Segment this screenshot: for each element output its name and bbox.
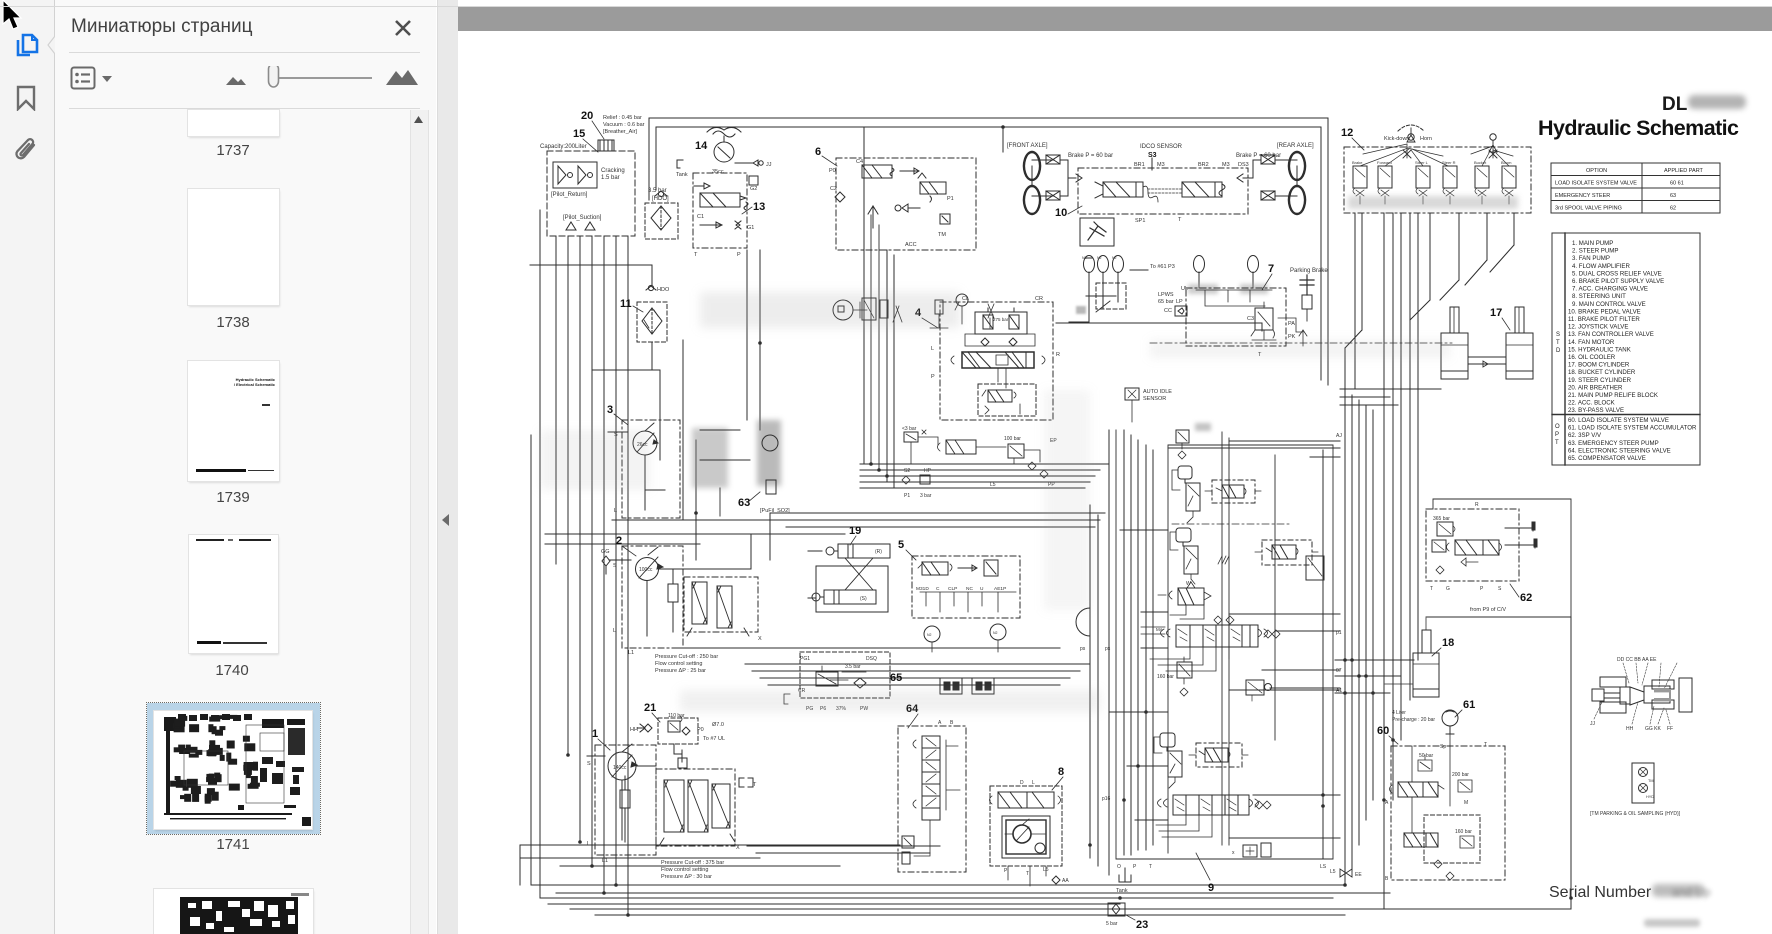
model logo DL420 (blurred) bbox=[1662, 94, 1746, 115]
load isolate system valve 60 bbox=[1377, 725, 1505, 882]
svg-text:21. MAIN PUMP RELIFE BLOCK: 21. MAIN PUMP RELIFE BLOCK bbox=[1568, 392, 1658, 399]
svg-text:W: W bbox=[1186, 581, 1191, 587]
svg-text:[Breather_Air]: [Breather_Air] bbox=[603, 129, 637, 135]
svg-text:N2: N2 bbox=[993, 631, 998, 635]
svg-text:ps: ps bbox=[1080, 646, 1086, 652]
svg-text:G1: G1 bbox=[747, 225, 754, 231]
svg-text:Vacuum : 0.6 bar: Vacuum : 0.6 bar bbox=[603, 122, 645, 128]
thumbnail page 1742 (partial at bottom) bbox=[154, 889, 313, 934]
svg-text:R: R bbox=[1056, 352, 1060, 358]
svg-text:Serial Number: Serial Number bbox=[1549, 884, 1652, 901]
thumbnail page 1738 bbox=[188, 189, 279, 305]
svg-text:L: L bbox=[587, 841, 590, 847]
notch on strip border pointing to active icon bbox=[46, 36, 56, 58]
svg-text:P1: P1 bbox=[947, 196, 954, 202]
wire top loop bbox=[649, 118, 1328, 385]
svg-text:(R): (R) bbox=[875, 549, 882, 555]
kick-down joystick valve 12 bbox=[1341, 125, 1531, 213]
svg-text:LPWS: LPWS bbox=[1158, 292, 1174, 298]
MCV bucket main spool bbox=[1102, 795, 1271, 837]
svg-text:S: S bbox=[1556, 332, 1560, 338]
svg-text:Steer R: Steer R bbox=[1442, 160, 1456, 165]
svg-text:Brake: Brake bbox=[1352, 160, 1363, 165]
svg-text:T: T bbox=[753, 782, 757, 788]
svg-text:G: G bbox=[1446, 586, 1450, 592]
svg-text:60. LOAD ISOLATE SYSTEM VALVE: 60. LOAD ISOLATE SYSTEM VALVE bbox=[1568, 417, 1669, 424]
svg-text:07: 07 bbox=[1336, 668, 1342, 674]
wire mid verticals to MCV bbox=[1109, 430, 1153, 875]
svg-text:[TM PARKING & OIL SAMPLING (HY: [TM PARKING & OIL SAMPLING (HYD)] bbox=[1590, 811, 1681, 817]
MCV 160bar relief bbox=[1157, 556, 1324, 701]
thumbnail page 1741 selected bbox=[147, 703, 320, 834]
emergency steer pump 63 (blurred region) bbox=[692, 420, 790, 516]
steer cylinder 19 crossover bbox=[808, 525, 890, 612]
svg-text:CR: CR bbox=[1035, 296, 1043, 302]
svg-text:C1: C1 bbox=[697, 214, 704, 220]
svg-text:19: 19 bbox=[849, 525, 861, 537]
hydraulic tank 15 bbox=[540, 128, 635, 236]
legend box bbox=[1552, 233, 1700, 465]
svg-text:C2: C2 bbox=[830, 186, 837, 192]
svg-text:EE: EE bbox=[1355, 872, 1362, 878]
thumbnail page 1739 bbox=[188, 361, 279, 481]
svg-text:22. ACC. BLOCK: 22. ACC. BLOCK bbox=[1568, 400, 1615, 407]
svg-text:D: D bbox=[1020, 780, 1024, 786]
svg-text:PA: PA bbox=[1288, 321, 1295, 327]
svg-text:[Pilot_Suction]: [Pilot_Suction] bbox=[563, 215, 602, 221]
small mountain (zoom-out thumbnails) bbox=[225, 74, 247, 86]
svg-text:TM: TM bbox=[938, 232, 946, 238]
panel close X bbox=[390, 15, 416, 41]
svg-text:M: M bbox=[1464, 800, 1468, 806]
svg-text:17. BOOM CYLINDER: 17. BOOM CYLINDER bbox=[1568, 362, 1630, 369]
wire left trunk bbox=[531, 210, 540, 898]
front axle bbox=[1007, 143, 1082, 214]
svg-text:L: L bbox=[614, 508, 617, 514]
svg-text:63. EMERGENCY STEER PUMP: 63. EMERGENCY STEER PUMP bbox=[1568, 440, 1659, 447]
svg-text:Sp: Sp bbox=[1440, 744, 1446, 750]
svg-text:A1: A1 bbox=[1336, 688, 1342, 694]
svg-text:GG: GG bbox=[601, 549, 610, 555]
MCV comp spool right bbox=[1255, 540, 1318, 565]
steer pump 2 bbox=[601, 534, 751, 656]
compensator valve 65 bbox=[784, 652, 902, 712]
main pump relief block 21 bbox=[630, 702, 725, 768]
MCV W valve bbox=[1158, 581, 1211, 619]
svg-text:L1: L1 bbox=[602, 858, 608, 864]
svg-text:15. HYDRAULIC TANK: 15. HYDRAULIC TANK bbox=[1568, 346, 1631, 353]
svg-text:P: P bbox=[1004, 868, 1008, 874]
svg-text:4 Liter: 4 Liter bbox=[1392, 710, 1406, 716]
svg-text:L: L bbox=[1032, 780, 1035, 786]
svg-text:AE1P: AE1P bbox=[994, 586, 1006, 592]
svg-text:2. STEER PUMP: 2. STEER PUMP bbox=[1572, 248, 1618, 255]
MCV drain check bbox=[1232, 433, 1342, 875]
attachments paperclip icon bbox=[12, 136, 40, 166]
tank symbol bottom bbox=[1116, 864, 1327, 894]
MCV bucket pilot reducing valve bbox=[1170, 528, 1198, 588]
svg-text:[FRONT AXLE]: [FRONT AXLE] bbox=[1007, 143, 1048, 149]
left tool strip bbox=[0, 0, 55, 934]
svg-text:14: 14 bbox=[695, 140, 708, 152]
svg-text:Kick-down: Kick-down bbox=[1384, 136, 1409, 142]
svg-text:100 bar: 100 bar bbox=[1004, 436, 1021, 442]
MCV junction diamonds bbox=[1141, 616, 1234, 634]
junction dots grid bbox=[566, 125, 1573, 917]
svg-text:To #7 UL: To #7 UL bbox=[703, 736, 725, 742]
svg-text:AUTO IDLE: AUTO IDLE bbox=[1143, 389, 1172, 395]
svg-text:Tank: Tank bbox=[1116, 888, 1128, 894]
svg-text:DL: DL bbox=[1662, 94, 1688, 115]
bucket cylinder 18 bbox=[1385, 618, 1454, 697]
svg-text:275 bar: 275 bar bbox=[993, 317, 1009, 322]
svg-text:TM: TM bbox=[1648, 779, 1653, 783]
svg-text:60 61: 60 61 bbox=[1670, 181, 1684, 187]
svg-text:N2: N2 bbox=[1112, 256, 1117, 260]
svg-text:X: X bbox=[736, 845, 740, 851]
svg-text:10. BRAKE PEDAL VALVE: 10. BRAKE PEDAL VALVE bbox=[1568, 308, 1641, 315]
svg-text:Flow control setting: Flow control setting bbox=[655, 661, 702, 667]
svg-text:50 bar: 50 bar bbox=[1419, 753, 1434, 759]
svg-text:65. COMPENSATOR VALVE: 65. COMPENSATOR VALVE bbox=[1568, 455, 1646, 462]
svg-text:ACC: ACC bbox=[905, 242, 917, 248]
MCV bucket comp spool bbox=[1189, 743, 1248, 767]
svg-text:[PuFil_SO2]: [PuFil_SO2] bbox=[760, 508, 790, 514]
svg-text:365 bar: 365 bar bbox=[1433, 516, 1450, 522]
svg-text:PG1: PG1 bbox=[800, 656, 810, 662]
footer doc number blurred bbox=[1644, 919, 1700, 927]
svg-text:HYD: HYD bbox=[1646, 795, 1654, 799]
svg-text:9. MAIN CONTROL VALVE: 9. MAIN CONTROL VALVE bbox=[1572, 301, 1646, 308]
options list icon bbox=[70, 65, 96, 91]
svg-text:15: 15 bbox=[573, 128, 585, 140]
svg-text:14. FAN MOTOR: 14. FAN MOTOR bbox=[1568, 339, 1615, 346]
svg-text:62: 62 bbox=[1520, 592, 1532, 604]
svg-text:3.5 bar: 3.5 bar bbox=[648, 188, 667, 194]
main pump regulator spools bbox=[656, 769, 757, 880]
svg-text:EMERGENCY STEER: EMERGENCY STEER bbox=[1555, 193, 1610, 199]
svg-text:C: C bbox=[936, 586, 940, 592]
boom cylinders 17 bbox=[1441, 307, 1533, 379]
svg-text:GG KK: GG KK bbox=[1645, 726, 1662, 732]
fan controller valve 13 bbox=[693, 173, 765, 258]
parking brake bbox=[1290, 268, 1328, 321]
svg-text:18. BUCKET CYLINDER: 18. BUCKET CYLINDER bbox=[1568, 369, 1636, 376]
svg-text:p1: p1 bbox=[1336, 630, 1342, 636]
svg-text:61. LOAD ISOLATE SYSTEM ACCUMU: 61. LOAD ISOLATE SYSTEM ACCUMULATOR bbox=[1568, 425, 1697, 432]
thumbnails panel bbox=[55, 0, 436, 934]
MCV dashdot tie line bbox=[1172, 523, 1290, 525]
svg-text:Forward: Forward bbox=[1377, 160, 1392, 165]
svg-text:6: 6 bbox=[815, 146, 821, 158]
svg-text:DSQ: DSQ bbox=[866, 656, 877, 662]
svg-text:O: O bbox=[1555, 424, 1560, 430]
accumulator 61 bbox=[1392, 699, 1475, 734]
svg-text:CC: CC bbox=[1164, 308, 1172, 314]
pressure sensor cluster bbox=[833, 294, 994, 328]
joystick valve 4 bbox=[915, 296, 1060, 420]
C2 check to valve 6 bbox=[830, 186, 845, 202]
svg-text:To #61 P3: To #61 P3 bbox=[1150, 264, 1175, 270]
svg-text:A: A bbox=[938, 720, 942, 726]
svg-text:100cc: 100cc bbox=[639, 567, 653, 573]
svg-text:L5: L5 bbox=[990, 482, 996, 488]
svg-text:T: T bbox=[694, 252, 698, 258]
svg-text:T: T bbox=[1555, 440, 1559, 446]
MCV outer frame bbox=[1110, 430, 1340, 859]
svg-text:PK: PK bbox=[1288, 334, 1296, 340]
svg-text:X: X bbox=[758, 636, 762, 642]
svg-text:AA: AA bbox=[1062, 878, 1069, 884]
electronic steering valve 64 bbox=[898, 703, 966, 872]
svg-text:65 bar: 65 bar bbox=[1158, 299, 1174, 305]
wire diagonals bundle to kickdown bbox=[1384, 213, 1418, 909]
svg-text:9: 9 bbox=[1208, 882, 1214, 894]
fan motor 14 with fan bbox=[676, 127, 772, 178]
svg-text:5 bar: 5 bar bbox=[1106, 921, 1118, 927]
svg-text:Flow control setting: Flow control setting bbox=[661, 867, 708, 873]
svg-text:P: P bbox=[737, 252, 741, 258]
svg-text:160 bar: 160 bar bbox=[1157, 674, 1174, 680]
svg-text:Steer L: Steer L bbox=[1415, 160, 1429, 165]
air breather 20 bbox=[581, 110, 645, 151]
svg-text:7: 7 bbox=[1268, 263, 1274, 275]
scan blur smudges bbox=[540, 292, 1450, 712]
mouse cursor top-left bbox=[0, 0, 30, 34]
brake pilot supply valve 6 bbox=[815, 146, 976, 250]
svg-text:S: S bbox=[613, 563, 617, 569]
splitter with collapse arrow bbox=[437, 0, 459, 934]
steering unit 8 bbox=[990, 766, 1070, 886]
svg-text:16. OIL COOLER: 16. OIL COOLER bbox=[1568, 354, 1616, 361]
MCV inlet relief 360bar bbox=[1176, 423, 1211, 459]
svg-text:35cc: 35cc bbox=[712, 169, 724, 175]
wire tank suction drop lines bbox=[556, 236, 628, 915]
thumbnail page 1737 (partial) bbox=[188, 110, 279, 136]
svg-text:A: A bbox=[1385, 800, 1389, 806]
svg-text:G2: G2 bbox=[750, 186, 757, 192]
svg-text:10: 10 bbox=[1055, 207, 1067, 219]
svg-text:63: 63 bbox=[1670, 193, 1676, 199]
accumulator pair right bbox=[1056, 256, 1268, 332]
svg-text:200 bar: 200 bar bbox=[1452, 772, 1469, 778]
svg-text:T: T bbox=[1178, 217, 1182, 223]
svg-text:23: 23 bbox=[1136, 919, 1148, 931]
svg-text:Horn: Horn bbox=[1420, 136, 1432, 142]
svg-text:L: L bbox=[931, 346, 934, 352]
wire bottom rails bbox=[520, 858, 1571, 915]
svg-text:Cracking: Cracking bbox=[601, 168, 625, 174]
junction manifolds below 5 bbox=[940, 678, 994, 694]
svg-text:N2: N2 bbox=[927, 633, 932, 637]
svg-text:<3 bar: <3 bar bbox=[902, 426, 917, 432]
svg-text:64. ELECTRONIC STEERING VALVE: 64. ELECTRONIC STEERING VALVE bbox=[1568, 447, 1671, 454]
svg-text:[REAR AXLE]: [REAR AXLE] bbox=[1277, 143, 1314, 149]
svg-text:SP1: SP1 bbox=[1135, 218, 1145, 224]
svg-text:UL: UL bbox=[1181, 286, 1188, 292]
priority valve cluster bbox=[902, 426, 1057, 499]
svg-text:MA: MA bbox=[1156, 627, 1163, 632]
ps pipe bend bbox=[1076, 608, 1090, 652]
wire lower horizontals bbox=[520, 845, 940, 885]
options dropdown caret bbox=[101, 75, 113, 83]
svg-text:C4: C4 bbox=[856, 159, 863, 165]
main document area bbox=[458, 0, 1772, 934]
svg-text:OPTION: OPTION bbox=[1586, 168, 1607, 174]
svg-text:D: D bbox=[1556, 348, 1561, 354]
svg-text:AJ: AJ bbox=[1336, 433, 1342, 439]
svg-text:3rd SPOOL VALVE PIPING: 3rd SPOOL VALVE PIPING bbox=[1555, 206, 1622, 212]
svg-text:B: B bbox=[1385, 876, 1389, 882]
svg-text:U: U bbox=[980, 586, 984, 592]
svg-text:12. JOYSTICK VALVE: 12. JOYSTICK VALVE bbox=[1568, 324, 1628, 331]
svg-text:N2: N2 bbox=[1082, 256, 1087, 260]
svg-text:JJ: JJ bbox=[1590, 721, 1596, 727]
svg-text:8: 8 bbox=[1058, 766, 1064, 778]
HDO return filter bbox=[645, 188, 678, 239]
svg-text:P: P bbox=[1480, 586, 1484, 592]
MCV boom main spool bbox=[1105, 625, 1280, 671]
svg-text:6. BRAKE PILOT SUPPLY VALVE: 6. BRAKE PILOT SUPPLY VALVE bbox=[1572, 278, 1664, 285]
svg-text:Capacity:200Liter: Capacity:200Liter bbox=[540, 144, 587, 150]
wire right risers bbox=[1345, 390, 1373, 885]
svg-text:7. ACC. CHARGING VALVE: 7. ACC. CHARGING VALVE bbox=[1572, 286, 1648, 293]
svg-text:JJ: JJ bbox=[766, 162, 772, 168]
MCV bucket pilot valve lower bbox=[1154, 733, 1182, 788]
svg-text:T: T bbox=[1484, 742, 1487, 748]
svg-text:BR1: BR1 bbox=[1134, 162, 1145, 168]
svg-text:5. DUAL CROSS RELIEF VALVE: 5. DUAL CROSS RELIEF VALVE bbox=[1572, 270, 1662, 277]
svg-text:11. BRAKE PILOT FILTER: 11. BRAKE PILOT FILTER bbox=[1568, 316, 1640, 323]
svg-text:BR2: BR2 bbox=[1198, 162, 1209, 168]
steer pump regulator spools bbox=[655, 577, 762, 674]
EE quick coupler bbox=[1340, 869, 1362, 878]
svg-text:(S): (S) bbox=[860, 596, 867, 602]
svg-text:M31D: M31D bbox=[916, 586, 929, 592]
svg-text:3: 3 bbox=[607, 404, 613, 416]
svg-text:61: 61 bbox=[1463, 699, 1475, 711]
svg-text:62. 3SP V/V: 62. 3SP V/V bbox=[1568, 432, 1602, 439]
compensator 3SP valve 62 bbox=[1426, 499, 1571, 617]
svg-text:Boom: Boom bbox=[1501, 160, 1512, 165]
wheel loader pictogram (top view) bbox=[1590, 657, 1692, 732]
scrollbar up arrow bbox=[413, 115, 424, 124]
svg-text:Pressure Cut-off : 250 bar: Pressure Cut-off : 250 bar bbox=[655, 654, 718, 660]
svg-text:Parking Brake: Parking Brake bbox=[1290, 268, 1328, 274]
svg-text:L5: L5 bbox=[1330, 869, 1336, 875]
auto idle sensor bbox=[1125, 388, 1172, 422]
svg-text:1.5 bar: 1.5 bar bbox=[601, 175, 620, 181]
svg-text:18: 18 bbox=[1442, 637, 1454, 649]
svg-text:P0: P0 bbox=[829, 168, 836, 174]
svg-text:DS3: DS3 bbox=[1238, 162, 1249, 168]
page thumbnails icon (active, blue) bbox=[13, 32, 41, 60]
svg-text:140cc: 140cc bbox=[613, 765, 627, 771]
wire bus from pumps to MCV bbox=[860, 127, 1108, 488]
svg-text:S: S bbox=[587, 761, 591, 767]
bookmarks icon bbox=[14, 85, 38, 111]
brake pedal valve 10 bbox=[1055, 144, 1249, 246]
svg-text:13: 13 bbox=[753, 201, 765, 213]
svg-text:P0: P0 bbox=[697, 727, 704, 733]
svg-text:P1: P1 bbox=[904, 493, 910, 499]
acc charging valve 7 bbox=[1158, 263, 1307, 358]
svg-text:5: 5 bbox=[898, 539, 904, 551]
svg-text:P: P bbox=[931, 374, 935, 380]
svg-text:M3: M3 bbox=[1157, 162, 1165, 168]
svg-text:LP: LP bbox=[1176, 299, 1183, 305]
wire column mid-left bbox=[683, 250, 760, 560]
thumbnail size slider bbox=[276, 77, 372, 79]
svg-text:Pressure ΔP : 30 bar: Pressure ΔP : 30 bar bbox=[661, 874, 712, 880]
option table bbox=[1551, 163, 1720, 213]
svg-text:Brake P = 60 bar: Brake P = 60 bar bbox=[1068, 153, 1113, 159]
fan pump 3 bbox=[607, 404, 680, 518]
svg-text:160 bar: 160 bar bbox=[1455, 829, 1472, 835]
svg-text:N2: N2 bbox=[1097, 256, 1102, 260]
svg-text:Hydraulic Schematic: Hydraulic Schematic bbox=[1538, 116, 1739, 140]
svg-text:ps: ps bbox=[1105, 646, 1111, 652]
svg-text:Ø7.0: Ø7.0 bbox=[712, 722, 724, 728]
TM parking & oil sampling block bbox=[1590, 763, 1681, 817]
svg-text:63: 63 bbox=[738, 497, 750, 509]
svg-text:[HDO]: [HDO] bbox=[652, 196, 669, 202]
svg-text:APPLIED PART: APPLIED PART bbox=[1664, 168, 1704, 174]
main pump 1 bbox=[587, 728, 656, 864]
svg-text:and Up: and Up bbox=[1672, 885, 1711, 899]
svg-text:LOAD ISOLATE SYSTEM VALVE: LOAD ISOLATE SYSTEM VALVE bbox=[1555, 181, 1637, 187]
svg-text:T: T bbox=[1149, 864, 1152, 870]
svg-text:from P9 of C/V: from P9 of C/V bbox=[1470, 607, 1506, 613]
svg-text:LS: LS bbox=[1320, 864, 1327, 870]
svg-text:23. BY-PASS VALVE: 23. BY-PASS VALVE bbox=[1568, 407, 1624, 414]
svg-text:Pre-charge : 20 bar: Pre-charge : 20 bar bbox=[1392, 717, 1435, 723]
brake pilot filter 11 bbox=[530, 265, 670, 460]
svg-text:NC: NC bbox=[966, 586, 973, 592]
svg-text:L: L bbox=[613, 628, 616, 634]
rear axle bbox=[1236, 143, 1314, 214]
svg-text:3 bar: 3 bar bbox=[920, 493, 932, 499]
svg-text:1: 1 bbox=[592, 728, 598, 740]
flow amplifier 5 bbox=[898, 539, 1020, 652]
svg-text:DD CC BB AA EE: DD CC BB AA EE bbox=[1617, 657, 1657, 663]
svg-text:1. MAIN PUMP: 1. MAIN PUMP bbox=[1572, 240, 1613, 247]
svg-text:C3: C3 bbox=[1247, 316, 1254, 322]
svg-text:Relief : 0.45 bar: Relief : 0.45 bar bbox=[603, 115, 642, 121]
svg-text:p16: p16 bbox=[1102, 796, 1111, 802]
svg-text:P: P bbox=[1555, 432, 1559, 438]
MCV boom comp spool upper bbox=[1205, 480, 1261, 503]
svg-text:S2: S2 bbox=[904, 468, 910, 474]
svg-text:FF: FF bbox=[1667, 726, 1673, 732]
svg-text:13. FAN CONTROLLER VALVE: 13. FAN CONTROLLER VALVE bbox=[1568, 331, 1654, 338]
svg-text:x: x bbox=[1232, 850, 1235, 856]
svg-text:B: B bbox=[950, 720, 954, 726]
accumulator group left bbox=[1069, 256, 1126, 323]
svg-text:L1: L1 bbox=[628, 650, 634, 656]
svg-text:3. FAN PUMP: 3. FAN PUMP bbox=[1572, 255, 1610, 262]
svg-text:2: 2 bbox=[616, 535, 622, 547]
svg-text:Pressure ΔP : 25 bar: Pressure ΔP : 25 bar bbox=[655, 668, 706, 674]
svg-text:19. STEER CYLINDER: 19. STEER CYLINDER bbox=[1568, 377, 1632, 384]
svg-text:S: S bbox=[1498, 586, 1502, 592]
svg-text:P: P bbox=[1133, 864, 1137, 870]
serial number bbox=[1549, 884, 1711, 901]
svg-text:8. STEERING UNIT: 8. STEERING UNIT bbox=[1572, 293, 1626, 300]
svg-text:HDO: HDO bbox=[657, 287, 670, 293]
svg-text:60: 60 bbox=[1377, 725, 1389, 737]
svg-text:[Pilot_Return]: [Pilot_Return] bbox=[551, 192, 588, 198]
